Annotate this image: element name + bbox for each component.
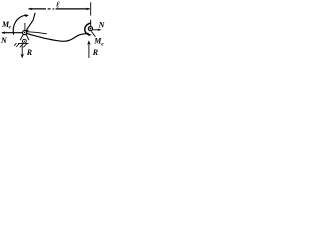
svg-text:N: N xyxy=(0,36,8,45)
svg-text:ℓ: ℓ xyxy=(56,0,60,10)
svg-text:R: R xyxy=(26,48,33,57)
svg-text:R: R xyxy=(92,48,99,57)
svg-text:e: e xyxy=(101,41,104,47)
svg-text:e: e xyxy=(9,25,12,31)
svg-text:N: N xyxy=(98,20,106,29)
